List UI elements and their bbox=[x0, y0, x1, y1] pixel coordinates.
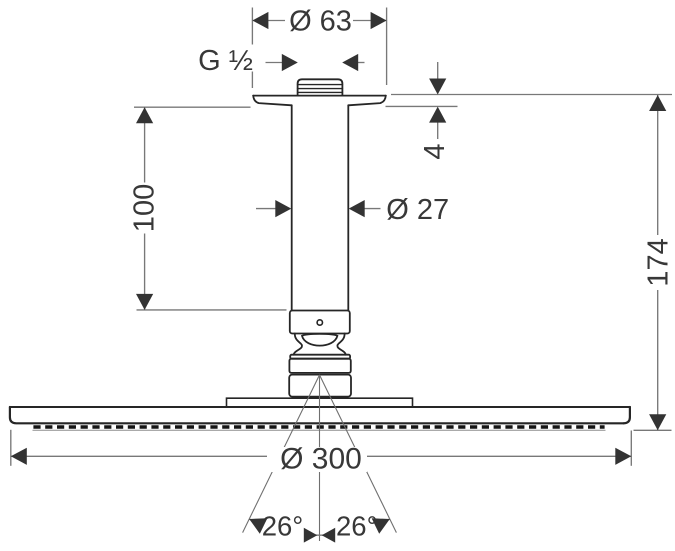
dim line 100 bbox=[144, 107, 146, 310]
arrow 26 left outer bbox=[245, 511, 267, 533]
arrow Ø63 right bbox=[371, 12, 387, 29]
arrow Ø300 left bbox=[11, 448, 27, 465]
leader Ø27 left bbox=[256, 208, 277, 210]
svg-text:Ø 63: Ø 63 bbox=[289, 6, 352, 38]
svg-text:26°: 26° bbox=[262, 511, 304, 542]
ball joint left side bbox=[294, 334, 302, 355]
leader Ø27 right bbox=[363, 208, 381, 210]
spray right line bbox=[320, 375, 397, 533]
arrow Ø63 left bbox=[252, 12, 268, 29]
svg-text:26°: 26° bbox=[336, 511, 378, 542]
arrow Ø27 left bbox=[275, 200, 291, 217]
collar box bbox=[290, 311, 350, 334]
arrow 4 up bbox=[429, 107, 446, 123]
ball joint lens bbox=[302, 334, 337, 346]
joint bottom box bbox=[289, 375, 351, 397]
svg-text:G ½: G ½ bbox=[198, 45, 253, 77]
arrow 100 down bbox=[136, 294, 153, 310]
label Ø300 bbox=[267, 447, 367, 472]
flange right edge bbox=[348, 96, 386, 106]
pipe left wall bbox=[291, 105, 293, 310]
ball joint right side bbox=[337, 334, 345, 355]
disc left edge bbox=[10, 407, 624, 423]
label 100 bbox=[131, 183, 157, 234]
nozzle face bottom line bbox=[33, 429, 606, 431]
label 26 left bbox=[262, 511, 306, 540]
ext line 174 bottom bbox=[634, 429, 672, 431]
ext line top plane (4 / 174) bbox=[391, 94, 672, 96]
leader G1/2 right bbox=[356, 62, 365, 64]
dim line Ø63 bbox=[252, 20, 386, 22]
arrow 174 down bbox=[649, 414, 666, 430]
ext line Ø63 right bbox=[386, 8, 388, 86]
svg-text:100: 100 bbox=[129, 184, 161, 232]
flange left edge bbox=[253, 96, 292, 106]
arrow Ø27 right bbox=[349, 200, 365, 217]
ext line 100 top bbox=[134, 106, 251, 108]
arc 26 left bbox=[249, 519, 319, 535]
arc 26 right bbox=[320, 519, 390, 535]
label Ø63 bbox=[285, 5, 353, 35]
ext line Ø63 left bbox=[251, 8, 253, 89]
label 26 right bbox=[335, 511, 379, 540]
ext line Ø300 left bbox=[10, 430, 12, 466]
joint band bbox=[290, 355, 350, 359]
disc right edge bbox=[624, 407, 630, 423]
ext line 100 bottom bbox=[137, 309, 287, 311]
dim line 174 bbox=[657, 95, 659, 430]
arrow Ø300 right bbox=[615, 448, 631, 465]
svg-text:Ø 300: Ø 300 bbox=[280, 443, 362, 476]
disc top line bbox=[10, 406, 630, 408]
cap thread line 3 bbox=[298, 91, 343, 93]
dim 4 lower line bbox=[437, 122, 439, 140]
spray left line bbox=[243, 375, 320, 533]
svg-text:Ø 27: Ø 27 bbox=[386, 194, 449, 226]
joint mid box bbox=[289, 359, 350, 373]
label 4 bbox=[422, 140, 447, 163]
arrow 4 down bbox=[429, 79, 446, 95]
ceiling flange top bbox=[253, 95, 386, 97]
pipe right wall bbox=[347, 105, 349, 310]
leader G1/2 left bbox=[266, 62, 285, 64]
svg-text:174: 174 bbox=[643, 238, 675, 286]
cap thread line 2 bbox=[298, 88, 343, 90]
label 174 bbox=[645, 235, 671, 290]
ext line flange bottom (4) bbox=[386, 105, 458, 107]
nozzle dashes bbox=[33, 425, 604, 429]
arrow 26 left inner bbox=[304, 528, 318, 543]
dim line Ø300 bbox=[11, 455, 632, 457]
arrow 26 right outer bbox=[372, 511, 394, 533]
step plate bbox=[227, 398, 413, 407]
collar hole bbox=[317, 320, 322, 325]
arrow G1/2 right bbox=[342, 54, 358, 71]
arrow 100 up bbox=[136, 107, 153, 123]
label G 1/2 bbox=[196, 45, 257, 72]
ext line Ø300 right bbox=[630, 431, 632, 466]
arrow 174 up bbox=[649, 95, 666, 111]
threaded cap G1/2 bbox=[298, 79, 343, 95]
svg-text:4: 4 bbox=[419, 143, 451, 159]
cap thread line 1 bbox=[298, 84, 343, 86]
arrow G1/2 left bbox=[282, 54, 298, 71]
dim 4 upper line bbox=[437, 62, 439, 80]
arrow 26 right inner bbox=[322, 528, 336, 543]
spray center line bbox=[319, 375, 321, 541]
